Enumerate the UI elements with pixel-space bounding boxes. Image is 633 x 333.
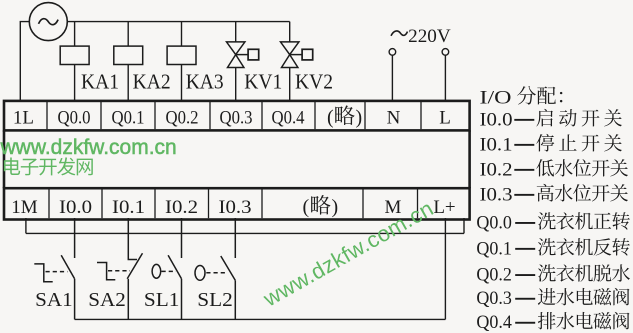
svg-text:): ) [332, 196, 339, 218]
relay coil KA2 [114, 46, 143, 64]
wire: KA2 branch from top bus [127, 22, 129, 46]
wire: supply to N [391, 55, 393, 102]
wire: KA3 coil to terminal [181, 65, 183, 103]
switch SL1 (low level, I0.2) [152, 218, 181, 319]
label KA2 [133, 70, 171, 94]
terminal 1L [13, 108, 34, 129]
wire: KA1 branch from top bus [74, 22, 76, 46]
label I/O assignment heading [480, 86, 563, 108]
svg-text:www.dzkfw.com.cn: www.dzkfw.com.cn [0, 136, 177, 159]
PLC input terminal row [4, 188, 470, 219]
wire: top supply bus [67, 21, 289, 23]
svg-text:(: ( [303, 196, 310, 218]
switch SL2 (high level, I0.3) [195, 218, 235, 319]
terminal N [387, 108, 401, 129]
wire: KV1 to terminal [235, 68, 237, 103]
label Q0.0 assignment [476, 212, 629, 233]
relay coil KA1 [60, 46, 89, 64]
svg-text:Q0.3: Q0.3 [220, 108, 253, 129]
label KA3 [186, 70, 224, 94]
solenoid valve KV1 [227, 42, 259, 68]
svg-text:220V: 220V [408, 26, 451, 47]
label SL1 [144, 289, 180, 311]
svg-text:1M: 1M [11, 197, 38, 218]
label Q0.3 assignment [476, 288, 629, 309]
wire: bottom switch bus [75, 318, 446, 320]
svg-text:I0.0: I0.0 [59, 197, 92, 218]
PLC body sides [4, 130, 470, 188]
svg-text:Q0.2: Q0.2 [166, 108, 199, 129]
label Q0.1 assignment [476, 238, 629, 259]
svg-text:I0.3: I0.3 [219, 197, 252, 218]
svg-text:I0.1: I0.1 [480, 134, 513, 155]
label Q0.4 assignment [476, 312, 629, 333]
supply terminal N [389, 49, 396, 56]
wire: supply to L [444, 55, 446, 102]
svg-text:I/O: I/O [480, 87, 512, 108]
svg-text:I0.1: I0.1 [112, 197, 145, 218]
wire: 1M down [25, 218, 27, 233]
svg-text:SL1: SL1 [144, 289, 180, 311]
svg-text:Q0.2: Q0.2 [476, 265, 512, 286]
wire: KA2 coil to terminal [127, 65, 129, 103]
svg-text:I0.3: I0.3 [480, 184, 513, 205]
svg-text:Q0.3: Q0.3 [476, 288, 512, 309]
svg-text:SL2: SL2 [197, 289, 233, 311]
AC source G1 [29, 3, 67, 41]
svg-text:1L: 1L [13, 108, 34, 129]
wire: KV2 to terminal [289, 68, 291, 103]
svg-text:L+: L+ [433, 197, 455, 218]
terminal 1M [11, 197, 38, 218]
label SA2 [88, 289, 126, 311]
svg-text:I0.0: I0.0 [480, 109, 513, 130]
terminal Q0.4 [272, 108, 305, 129]
svg-text:Q0.0: Q0.0 [476, 212, 512, 233]
switch SA2 (stop, NC, I0.1) [97, 218, 143, 319]
svg-text:Q0.1: Q0.1 [112, 108, 145, 129]
terminal I0.2 [165, 197, 198, 218]
switch SA1 (start, I0.0) [34, 218, 74, 319]
terminal Q0.3 [220, 108, 253, 129]
svg-text:Q0.0: Q0.0 [58, 108, 91, 129]
svg-text:I0.2: I0.2 [165, 197, 198, 218]
terminal L [439, 108, 451, 129]
svg-text:SA2: SA2 [88, 289, 126, 311]
wire: KA1 coil to terminal [74, 65, 76, 103]
terminal Q0.2 [166, 108, 199, 129]
terminal I0.0 [59, 197, 92, 218]
terminal Q0.0 [58, 108, 91, 129]
svg-text:Q0.4: Q0.4 [272, 108, 305, 129]
svg-text:Q0.4: Q0.4 [476, 312, 512, 333]
label I0.0 assignment [480, 109, 622, 130]
svg-text:I0.2: I0.2 [480, 159, 513, 180]
wire: 1M to M link [26, 232, 464, 234]
terminal M [385, 197, 402, 218]
wire: KV2 branch from top bus [289, 22, 291, 42]
svg-text:KA1: KA1 [81, 70, 119, 94]
svg-text:): ) [356, 107, 363, 129]
terminal Q0.1 [112, 108, 145, 129]
svg-text:N: N [387, 108, 401, 129]
label ~220V supply [391, 26, 451, 47]
wire: AC source to 1L terminal [20, 22, 29, 102]
label KA1 [81, 70, 119, 94]
terminal (略) output [327, 105, 362, 128]
svg-text:KA3: KA3 [186, 70, 224, 94]
svg-text:KV2: KV2 [295, 70, 333, 94]
label I0.1 assignment [480, 134, 622, 155]
label I0.3 assignment [480, 184, 629, 205]
svg-text:KA2: KA2 [133, 70, 171, 94]
label SA1 [35, 289, 72, 311]
label KV2 [295, 70, 333, 94]
label Q0.2 assignment [476, 264, 630, 285]
wire: KA3 branch from top bus [181, 22, 183, 46]
svg-text:(: ( [327, 107, 334, 129]
relay coil KA3 [167, 46, 196, 64]
wire: KV1 branch from top bus [235, 22, 237, 42]
terminal (略) input [303, 195, 339, 218]
svg-text:Q0.1: Q0.1 [476, 238, 512, 259]
svg-text:L: L [439, 108, 451, 129]
terminal I0.1 [112, 197, 145, 218]
PLC output terminal row [4, 101, 470, 130]
label I0.2 assignment [480, 159, 629, 180]
label SL2 [197, 289, 233, 311]
terminal L+ [433, 197, 455, 218]
supply terminal L [442, 49, 449, 56]
label KV1 [244, 70, 282, 94]
terminal I0.3 [219, 197, 252, 218]
svg-text:www.dzkfw.com.cn: www.dzkfw.com.cn [258, 196, 437, 312]
svg-text:KV1: KV1 [244, 70, 282, 94]
solenoid valve KV2 [281, 42, 313, 68]
wire: link up to M terminal [463, 218, 465, 233]
svg-text:SA1: SA1 [35, 289, 72, 311]
wire: L+ down to switch bus [444, 218, 446, 319]
